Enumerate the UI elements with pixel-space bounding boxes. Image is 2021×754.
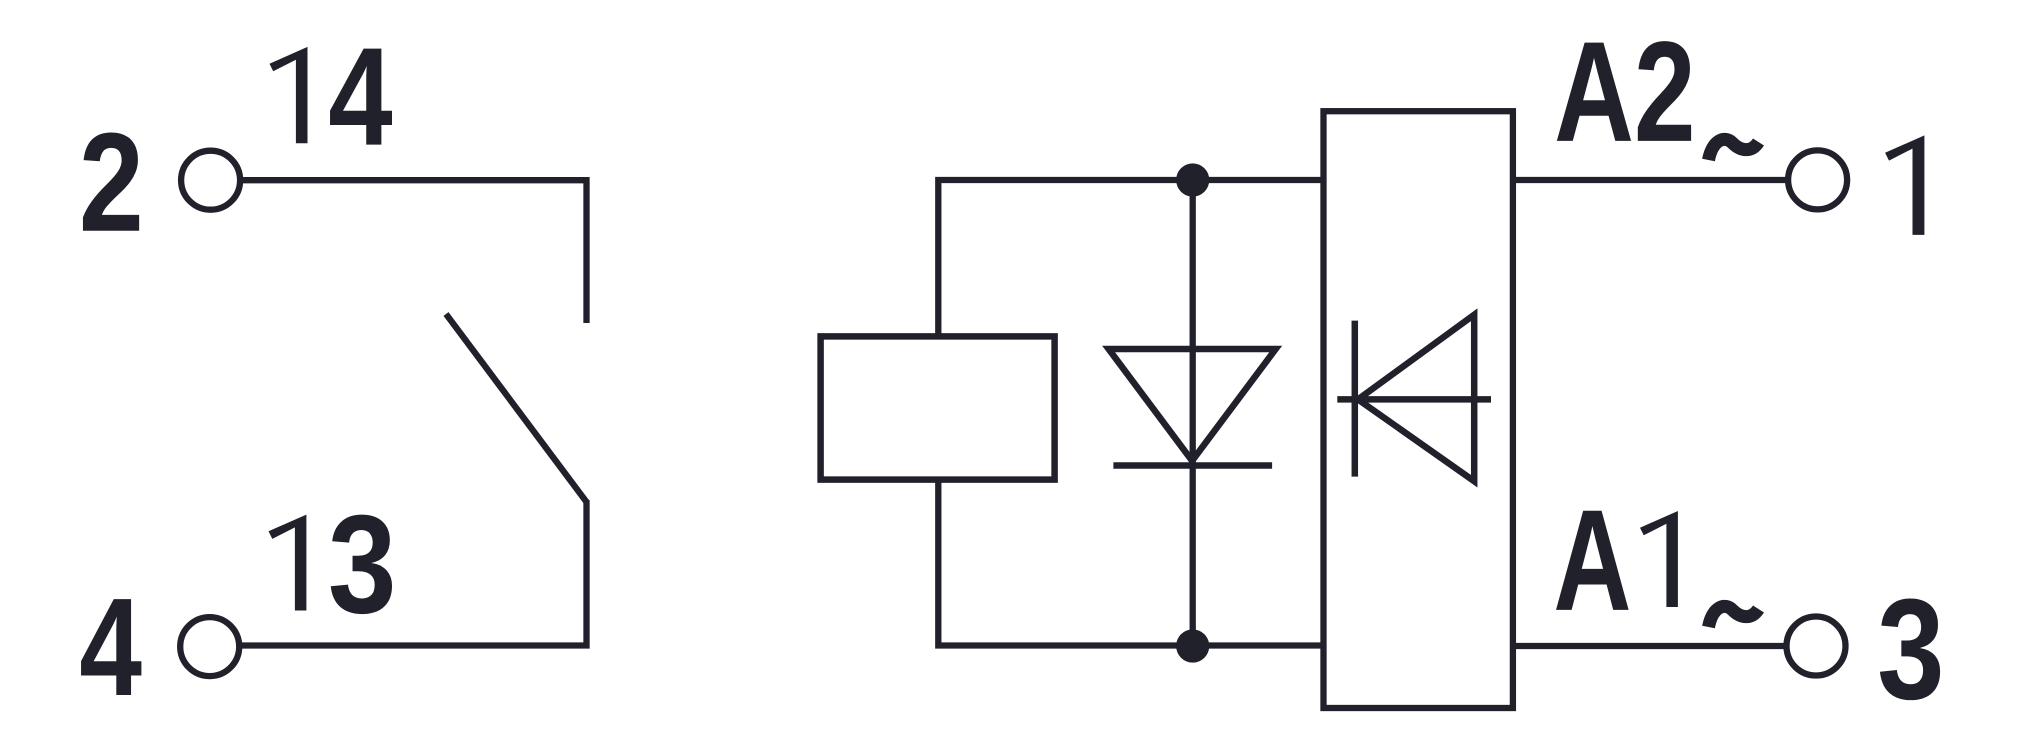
wire 14: terminal 2 to switch top corner [243, 180, 587, 323]
svg-text:2: 2 [79, 104, 144, 261]
terminal circle 3 [1787, 617, 1846, 676]
node junction dot bottom [1176, 629, 1209, 662]
node junction dot top [1176, 163, 1209, 196]
svg-text:3: 3 [328, 486, 397, 642]
svg-text:A: A [1553, 481, 1631, 642]
svg-text:A2: A2 [1554, 12, 1695, 172]
wire A2: box to terminal 1 [1513, 177, 1786, 183]
relay coil rectangle K1 [821, 336, 1055, 479]
svg-text:4: 4 [79, 569, 142, 725]
AC tilde symbol near A2 [1709, 139, 1759, 160]
svg-text:3: 3 [1877, 570, 1944, 730]
thyristor U1 cathode bar [1352, 321, 1359, 477]
wire: coil bottom lead down and right to optocoupler box [938, 480, 1326, 646]
wire switch lower vertical + wire 13 to terminal 4 [240, 500, 587, 646]
label 14 digit 1 [270, 47, 308, 143]
terminal circle 4 [180, 617, 239, 676]
AC tilde symbol near A1 [1709, 606, 1759, 627]
diode D1 cathode bar [1113, 462, 1272, 469]
thyristor U1 horizontal line [1337, 396, 1491, 403]
label A1 digit 1 [1640, 511, 1678, 607]
terminal circle 1 [1788, 150, 1847, 209]
thyristor U1 triangle (pointing left) [1358, 315, 1474, 481]
label 1 [1885, 135, 1924, 235]
wire: vertical through diode from top node to bottom node [1190, 180, 1196, 646]
terminal circle 2 [181, 151, 240, 210]
svg-text:4: 4 [328, 19, 392, 175]
diode D1 triangle (cathode down) [1109, 349, 1276, 461]
wire: coil top lead up and right to optocoupler box [938, 180, 1326, 336]
output block rectangle U1 [1324, 111, 1513, 708]
wire A1: box to terminal 3 [1513, 643, 1786, 649]
label 13 digit 1 [269, 515, 307, 611]
switch blade contact 14-13 [446, 314, 587, 502]
